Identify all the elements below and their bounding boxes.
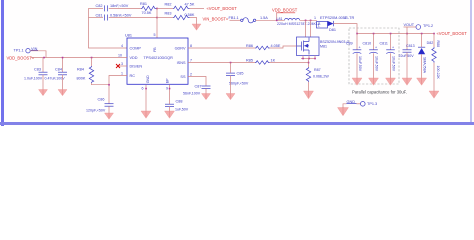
svg-text:10uF,50V: 10uF,50V bbox=[392, 56, 396, 72]
wire: drain stubs down to M81 bbox=[305, 20, 307, 37]
wire: ground to GND label bbox=[343, 104, 347, 108]
wire: R87 to ground bbox=[308, 82, 310, 91]
wire: bead to L81 bbox=[256, 19, 285, 21]
svg-text:R82: R82 bbox=[165, 2, 172, 6]
ground bbox=[417, 78, 427, 85]
svg-text:BP: BP bbox=[166, 78, 170, 83]
resistor R87 bbox=[306, 67, 329, 82]
svg-text:TP1.3: TP1.3 bbox=[367, 102, 377, 106]
wire: C810 to ground bbox=[373, 53, 375, 78]
svg-text:1.5A: 1.5A bbox=[260, 16, 268, 20]
svg-text:220uH MSS1278T-224KLB: 220uH MSS1278T-224KLB bbox=[277, 22, 321, 26]
svg-text:9: 9 bbox=[166, 87, 168, 91]
wire: compensation line 2 bbox=[89, 17, 104, 19]
svg-text:1: 1 bbox=[318, 24, 320, 28]
svg-text:4.05E: 4.05E bbox=[271, 44, 281, 48]
svg-text:C81: C81 bbox=[96, 13, 103, 17]
wire: R84 bottom to RC node bbox=[92, 83, 110, 85]
svg-text:DIS/EN: DIS/EN bbox=[130, 65, 143, 69]
resistor R82 bbox=[157, 2, 195, 10]
svg-text:+: + bbox=[392, 46, 394, 50]
svg-text:FB: FB bbox=[153, 47, 157, 52]
node: rail junctions bbox=[356, 33, 358, 35]
svg-text:SMAJ58A: SMAJ58A bbox=[423, 57, 427, 74]
svg-text:5: 5 bbox=[154, 33, 156, 37]
wire: C83 to ground bbox=[42, 75, 44, 90]
node A junction line2 bbox=[156, 17, 158, 19]
wire: SS pin to C87 bbox=[188, 77, 206, 86]
svg-text:«VOUT_BOOST: «VOUT_BOOST bbox=[207, 6, 238, 11]
svg-text:C88: C88 bbox=[176, 100, 183, 104]
svg-text:4: 4 bbox=[121, 44, 123, 48]
svg-text:+: + bbox=[375, 46, 377, 50]
wire: C813 to ground bbox=[406, 52, 408, 78]
svg-text:6: 6 bbox=[142, 87, 144, 91]
svg-text:R86: R86 bbox=[246, 44, 253, 48]
svg-text:C83: C83 bbox=[34, 68, 41, 72]
svg-text:ETPS20M-005G-TR: ETPS20M-005G-TR bbox=[320, 16, 354, 20]
capacitor C82 bbox=[96, 4, 129, 11]
wire: C85 to ground bbox=[230, 76, 232, 94]
svg-text:COMP: COMP bbox=[130, 47, 142, 51]
svg-text:18nF,<50V: 18nF,<50V bbox=[110, 4, 129, 8]
wire: port to ferrite bead bbox=[230, 19, 242, 21]
diode D82 bbox=[418, 34, 433, 74]
MOSFET M81 bbox=[297, 37, 350, 56]
op-amp U81 TPS40210 controller bbox=[125, 34, 188, 85]
ground bbox=[402, 78, 412, 85]
svg-text:C810: C810 bbox=[363, 41, 372, 45]
svg-text:C86: C86 bbox=[98, 98, 105, 102]
svg-text:R87: R87 bbox=[314, 68, 321, 72]
svg-text:800K: 800K bbox=[77, 77, 86, 81]
svg-text:C87: C87 bbox=[195, 84, 202, 88]
wire: D82 to ground bbox=[421, 54, 423, 78]
svg-text:VDD: VDD bbox=[130, 56, 138, 60]
wire: source tie down to sense node bbox=[308, 59, 310, 68]
svg-text:TPS40210DGQR: TPS40210DGQR bbox=[144, 56, 174, 60]
capacitor C810 bbox=[363, 34, 379, 72]
ground bbox=[39, 90, 48, 96]
wire: GND label to TP1.3 bbox=[357, 103, 361, 105]
resistor R88 bbox=[432, 34, 440, 80]
resistor R85 bbox=[246, 58, 276, 64]
capacitor C811 bbox=[380, 34, 396, 72]
ground bbox=[386, 78, 396, 85]
ground bbox=[192, 24, 201, 30]
svg-text:1: 1 bbox=[121, 72, 123, 76]
wire: compensation line 1 bbox=[89, 7, 104, 9]
ground bbox=[369, 78, 379, 85]
node A junction line1 bbox=[156, 8, 158, 10]
svg-text:C82: C82 bbox=[96, 4, 103, 8]
svg-text:56nF,100V: 56nF,100V bbox=[183, 91, 201, 95]
test point TP1.2 bbox=[416, 24, 433, 30]
svg-text:TP1.1: TP1.1 bbox=[14, 49, 24, 53]
svg-text:VDD_BOOST: VDD_BOOST bbox=[272, 8, 298, 13]
wire: M81 source stubs and tie bar bbox=[302, 56, 304, 59]
svg-text:C84: C84 bbox=[55, 68, 62, 72]
svg-text:8: 8 bbox=[190, 44, 192, 48]
capacitor C87 bbox=[183, 84, 211, 95]
svg-text:R88: R88 bbox=[436, 41, 440, 48]
svg-text:0.58nF,<50V: 0.58nF,<50V bbox=[110, 13, 132, 17]
diode D81 bbox=[314, 16, 354, 32]
svg-text:2: 2 bbox=[190, 73, 192, 77]
resistor R81 bbox=[140, 2, 157, 15]
node VIN label bbox=[31, 47, 38, 51]
wire: C86 to ground bbox=[108, 106, 110, 113]
svg-text:1uF,50V: 1uF,50V bbox=[175, 107, 189, 111]
wire: C87 to ground bbox=[205, 88, 207, 93]
capacitor C83 bbox=[24, 58, 48, 81]
wire: C89 to ground bbox=[356, 53, 358, 78]
ground bbox=[352, 78, 362, 85]
svg-text:1K: 1K bbox=[271, 58, 276, 62]
capacitor C85 on ISNS bbox=[226, 63, 249, 86]
capacitor C81 bbox=[96, 13, 132, 20]
svg-text:7: 7 bbox=[190, 59, 192, 63]
svg-text:120pF,<50V: 120pF,<50V bbox=[86, 108, 106, 112]
svg-text:ISNS: ISNS bbox=[177, 61, 186, 65]
svg-text:10uF,50V: 10uF,50V bbox=[375, 56, 379, 72]
svg-text:R84: R84 bbox=[77, 68, 84, 72]
svg-text:0.58K: 0.58K bbox=[185, 13, 195, 17]
capacitor C84 bbox=[45, 57, 68, 81]
svg-text:560pF,<50V: 560pF,<50V bbox=[229, 81, 249, 85]
resistor R86 bbox=[246, 44, 281, 50]
wire: TP1.1 to VDD line bbox=[30, 51, 46, 58]
svg-text:L81: L81 bbox=[277, 17, 283, 21]
wire: R85 to sense node bbox=[270, 62, 309, 64]
ground for TP1.3 bbox=[338, 108, 349, 116]
capacitor C86 bbox=[86, 98, 114, 113]
svg-text:GND: GND bbox=[146, 75, 150, 83]
sheet border bars bbox=[1, 0, 4, 126]
dashed parallel-capacitance box bbox=[349, 28, 399, 84]
svg-text:R83: R83 bbox=[165, 11, 172, 15]
svg-text:10uF,50V: 10uF,50V bbox=[358, 56, 362, 72]
wire: C88 to ground bbox=[169, 107, 171, 111]
ground bbox=[58, 90, 67, 96]
svg-text:C89: C89 bbox=[346, 41, 353, 45]
node: drain junctions bbox=[305, 20, 307, 22]
svg-text:RC: RC bbox=[130, 74, 136, 78]
node GND label bbox=[347, 100, 357, 104]
svg-text:FB1.1: FB1.1 bbox=[229, 16, 239, 20]
svg-text:0.06E,2W: 0.06E,2W bbox=[313, 74, 329, 78]
svg-text:C811: C811 bbox=[380, 41, 388, 45]
svg-text:47.5K: 47.5K bbox=[185, 2, 195, 6]
wire: GND pin 6 down bbox=[145, 85, 147, 111]
ground bbox=[304, 91, 314, 99]
svg-text:VIN_BOOST»: VIN_BOOST» bbox=[203, 17, 229, 22]
svg-text:«VOUT_BOOST: «VOUT_BOOST bbox=[437, 31, 468, 36]
wire: RC pin to C86 bbox=[109, 76, 127, 104]
wire: line1 mid segment bbox=[109, 7, 141, 9]
ground bbox=[226, 94, 235, 100]
ground bbox=[202, 94, 211, 100]
power label VDD_BOOST (top) with bar and stub bbox=[276, 12, 295, 14]
wire: compensation bus to COMP pin bbox=[89, 8, 128, 48]
no-connect X on DIS/EN bbox=[116, 64, 127, 68]
wire: R86 to gate of M81 bbox=[270, 46, 297, 48]
wire: line2 mid segment bbox=[109, 17, 157, 19]
wire: L81 to D81 bbox=[300, 19, 317, 21]
svg-text:SS: SS bbox=[180, 75, 186, 79]
wire: R83 to ground drop bbox=[190, 18, 197, 25]
test point TP1.3 bbox=[361, 102, 378, 107]
svg-text:70.5K: 70.5K bbox=[142, 11, 152, 15]
capacitor C88 bbox=[165, 100, 189, 112]
wire: node A bus down to FB pin bbox=[156, 8, 158, 38]
svg-text:R85: R85 bbox=[246, 58, 253, 62]
svg-text:GDRV: GDRV bbox=[175, 47, 186, 51]
svg-text:10: 10 bbox=[118, 54, 122, 58]
svg-text:M81: M81 bbox=[320, 45, 327, 49]
svg-text:C813: C813 bbox=[406, 44, 415, 48]
node: ISNS sense junction bbox=[308, 62, 310, 64]
capacitor C89 bbox=[346, 34, 362, 72]
svg-text:2: 2 bbox=[345, 16, 347, 20]
ground bbox=[105, 113, 114, 119]
svg-text:U81: U81 bbox=[125, 34, 132, 38]
resistor R83 bbox=[157, 11, 195, 19]
svg-text:1: 1 bbox=[314, 16, 316, 20]
svg-text:VOUT: VOUT bbox=[404, 23, 415, 27]
wire: line1 to port bbox=[190, 7, 205, 9]
svg-text:Parallel capacitance for 30uF.: Parallel capacitance for 30uF. bbox=[352, 89, 407, 94]
test point TP1.1 bbox=[14, 49, 31, 53]
svg-text:R81: R81 bbox=[140, 2, 147, 6]
resistor R84 bbox=[77, 57, 94, 83]
ground bbox=[165, 111, 175, 118]
wire: VDD line bbox=[31, 57, 127, 59]
capacitor C813 bbox=[399, 34, 415, 59]
svg-text:100.22K: 100.22K bbox=[436, 66, 440, 80]
diode D81 package box bbox=[317, 22, 328, 29]
wire: VOUT test point stub bbox=[406, 27, 408, 34]
svg-text:3: 3 bbox=[121, 62, 123, 66]
wire: C811 to ground bbox=[390, 53, 392, 78]
svg-text:VDD_BOOST»: VDD_BOOST» bbox=[7, 55, 35, 60]
ground bbox=[429, 91, 439, 98]
wire: GDRV to R86 bbox=[188, 47, 255, 49]
ground bbox=[141, 111, 151, 118]
inductor L81 bbox=[277, 17, 321, 26]
svg-text:22uF,50V: 22uF,50V bbox=[399, 54, 415, 58]
wire: BP pin 9 to C88 bbox=[169, 85, 171, 104]
wire: output rail bbox=[357, 33, 434, 35]
wire: R88 to ground bbox=[433, 63, 435, 92]
svg-text:C85: C85 bbox=[237, 72, 244, 76]
ferrite bead FB1.1 bbox=[229, 16, 256, 23]
wire: D81 to output rail corner bbox=[334, 24, 358, 34]
wire: C84 to ground bbox=[62, 75, 64, 90]
svg-text:TP1.2: TP1.2 bbox=[423, 24, 433, 28]
svg-text:1.0uF,100V: 1.0uF,100V bbox=[24, 76, 43, 80]
wire: ISNS to R85 bbox=[188, 62, 255, 64]
svg-text:D82: D82 bbox=[427, 41, 434, 45]
svg-text:+: + bbox=[359, 46, 361, 50]
svg-text:D81: D81 bbox=[329, 28, 336, 32]
